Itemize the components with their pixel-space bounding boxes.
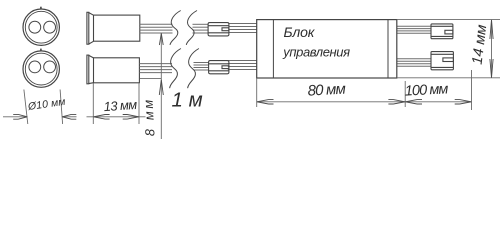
svg-text:Блок: Блок <box>284 24 316 40</box>
svg-text:8 мм: 8 мм <box>140 97 157 137</box>
svg-text:13 мм: 13 мм <box>103 97 138 114</box>
svg-text:80 мм: 80 мм <box>307 81 346 100</box>
svg-text:управления: управления <box>282 44 350 59</box>
svg-text:1 м: 1 м <box>172 89 203 112</box>
svg-text:100 мм: 100 мм <box>404 81 448 99</box>
svg-text:14 мм: 14 мм <box>470 24 491 66</box>
svg-text:Ø10 мм: Ø10 мм <box>26 96 66 113</box>
